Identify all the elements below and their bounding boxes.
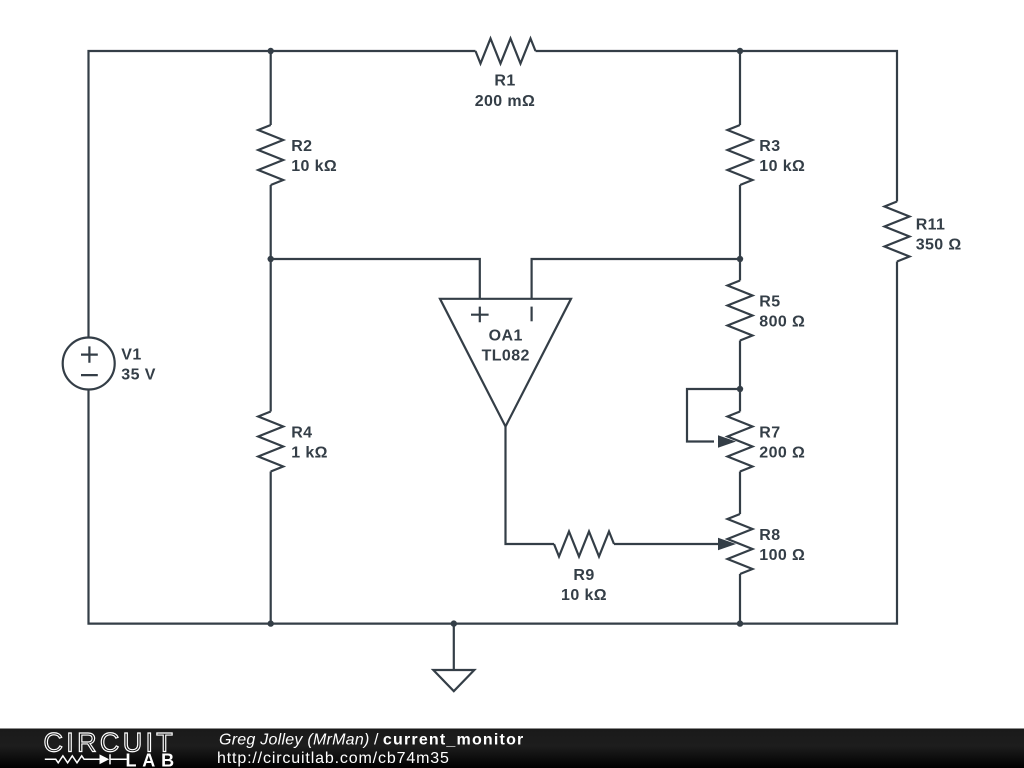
svg-text:800 Ω: 800 Ω (759, 314, 805, 331)
svg-text:R1: R1 (494, 72, 515, 89)
svg-text:350 Ω: 350 Ω (916, 236, 962, 253)
svg-text:10 kΩ: 10 kΩ (291, 158, 337, 175)
svg-text:OA1: OA1 (489, 328, 523, 345)
svg-text:LAB: LAB (126, 751, 180, 768)
svg-text:Greg Jolley (MrMan) / current_: Greg Jolley (MrMan) / current_monitor (219, 731, 524, 748)
svg-text:35 V: 35 V (121, 367, 156, 384)
svg-text:http://circuitlab.com/cb74m35: http://circuitlab.com/cb74m35 (217, 750, 450, 767)
svg-text:200 mΩ: 200 mΩ (475, 93, 536, 110)
svg-text:R5: R5 (759, 294, 780, 311)
svg-text:10 kΩ: 10 kΩ (759, 158, 805, 175)
svg-text:R9: R9 (573, 567, 594, 584)
svg-text:10 kΩ: 10 kΩ (561, 587, 607, 604)
svg-text:200 Ω: 200 Ω (759, 445, 805, 462)
svg-text:V1: V1 (121, 347, 141, 364)
svg-text:100 Ω: 100 Ω (759, 547, 805, 564)
svg-text:R8: R8 (759, 527, 780, 544)
svg-text:R7: R7 (759, 425, 780, 442)
svg-text:R4: R4 (291, 425, 312, 442)
svg-text:R2: R2 (291, 138, 312, 155)
svg-text:TL082: TL082 (482, 347, 530, 364)
svg-text:R11: R11 (916, 217, 946, 234)
svg-text:1 kΩ: 1 kΩ (291, 445, 328, 462)
svg-text:R3: R3 (759, 138, 780, 155)
